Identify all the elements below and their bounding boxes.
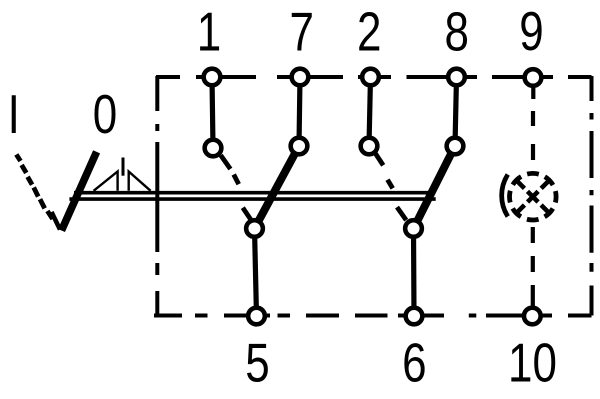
- closed contact arm 8-6 (thick): [414, 146, 456, 229]
- wire terminal 8 to contact: [455, 77, 457, 146]
- terminal 1 circle: [204, 69, 221, 86]
- detent cam left triangle: [94, 172, 118, 191]
- wire terminal 2 to contact: [369, 77, 371, 146]
- contact circle above terminal 5: [246, 220, 263, 237]
- contact circle below terminal 2: [361, 138, 378, 155]
- lever position I (dashed actuator lever): [16, 155, 52, 220]
- switch housing dashed border, bottom edge: [154, 314, 592, 318]
- wire terminal 9 to lamp (dashed): [531, 86, 535, 160]
- closed contact arm 7-5 (thick): [255, 146, 300, 229]
- svg-text:5: 5: [245, 332, 269, 394]
- svg-text:9: 9: [519, 0, 543, 62]
- detent plunger pin: [122, 158, 125, 176]
- terminal 8 circle: [448, 69, 465, 86]
- illumination lamp L (dashed circle with X): [510, 173, 557, 220]
- terminal 6 circle: [406, 308, 423, 325]
- svg-text:10: 10: [508, 332, 557, 394]
- switch housing dashed border, left edge: [155, 76, 159, 316]
- wire contact to terminal 6: [411, 229, 417, 317]
- svg-text:0: 0: [93, 83, 117, 145]
- svg-text:8: 8: [444, 1, 468, 63]
- svg-text:7: 7: [289, 1, 313, 63]
- contact circle below terminal 8: [447, 138, 464, 155]
- terminal 2 circle: [362, 69, 379, 86]
- terminal 5 circle: [248, 308, 265, 325]
- contact circle below terminal 7: [291, 138, 308, 155]
- terminal 10 circle: [524, 308, 541, 325]
- contact circle above terminal 6: [405, 220, 422, 237]
- svg-text:6: 6: [402, 332, 426, 394]
- open contact dashed arm 1-5: [221, 155, 251, 220]
- svg-text:2: 2: [357, 1, 381, 63]
- contact circle below terminal 1: [205, 140, 222, 157]
- open contact dashed arm 2-6: [375, 153, 406, 220]
- wire terminal 1 to contact: [212, 77, 213, 148]
- detent cam right triangle: [129, 172, 151, 191]
- svg-text:I: I: [8, 83, 20, 145]
- wire terminal 7 to contact: [299, 77, 300, 146]
- actuator mechanism bar (double line): [69, 193, 435, 199]
- lever pivot check-mark arm: [52, 212, 61, 230]
- switch housing dashed border, top edge: [156, 75, 592, 79]
- switch housing dashed border, right edge: [590, 76, 594, 316]
- terminal 9 circle: [525, 69, 542, 86]
- svg-text:1: 1: [197, 1, 221, 63]
- wire contact to terminal 5: [255, 229, 257, 317]
- wire lamp to terminal 10 (dashed): [531, 227, 535, 307]
- terminal 7 circle: [292, 69, 309, 86]
- lever position 0 (solid actuator lever): [62, 152, 97, 231]
- lamp reflector arc: [502, 175, 508, 217]
